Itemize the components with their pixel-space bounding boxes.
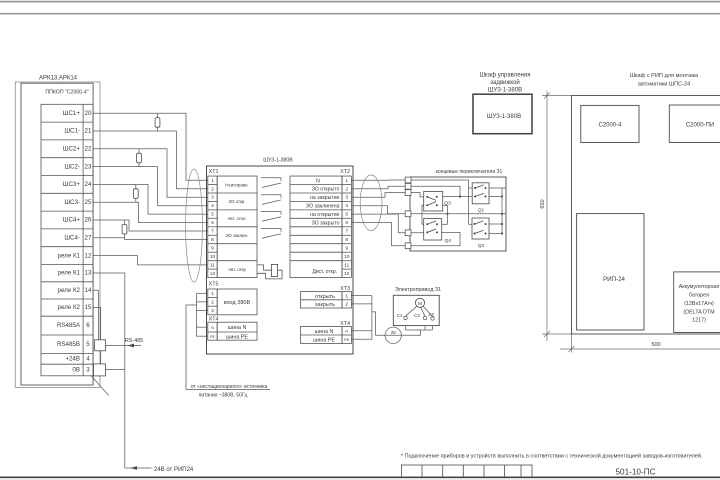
resistor R1 (ШС1 EOL) <box>155 113 160 131</box>
wire ШС2- pin23 to ХТ1.4 <box>93 167 208 206</box>
pin numbers ХТ1 <box>210 178 216 277</box>
svg-text:ЗО заклин.: ЗО заклин. <box>226 233 248 238</box>
svg-text:ЗО открыто: ЗО открыто <box>312 187 340 193</box>
terminal strip ХТ4 left <box>208 322 257 340</box>
svg-text:2: 2 <box>211 300 214 306</box>
svg-text:ШС2-: ШС2- <box>64 163 80 170</box>
svg-text:на открытие: на открытие <box>310 212 339 218</box>
svg-text:от «нестационарного» источника: от «нестационарного» источника <box>191 384 268 390</box>
junction dots <box>446 195 503 234</box>
svg-text:батарея: батарея <box>689 292 709 298</box>
resistor R3 (ШС3 EOL) <box>133 184 138 202</box>
svg-text:10: 10 <box>210 254 216 260</box>
wire ХТ2.3 to switch terminal 3 <box>351 193 405 198</box>
svg-text:(DELTA DTM: (DELTA DTM <box>683 310 715 316</box>
svg-text:9: 9 <box>345 246 348 252</box>
wire ШС4- pin27 to ХТ1.8 <box>93 238 208 240</box>
svg-text:С2000-ПИ: С2000-ПИ <box>686 122 714 128</box>
cabinet ШУЗ-1-380В main box <box>207 166 354 354</box>
svg-text:Q2: Q2 <box>478 243 485 249</box>
terminal strip ХТ3 <box>301 292 352 309</box>
wire реле К1 pin12 to ХТ1.11 <box>93 256 208 265</box>
svg-text:25: 25 <box>85 199 92 206</box>
svg-text:7: 7 <box>345 229 348 235</box>
drive terminals С1 С2 РЕ <box>404 316 434 320</box>
switch Q1 <box>472 183 489 204</box>
device block АРК13,АРК14 outer (second unit) box <box>15 82 100 388</box>
switch terminals column <box>405 177 411 249</box>
dimension 650 <box>542 91 572 341</box>
svg-text:3: 3 <box>86 367 90 374</box>
svg-text:Аккумуляторная: Аккумуляторная <box>679 284 720 290</box>
device box С2000-4 <box>581 105 639 142</box>
svg-text:шина PE: шина PE <box>313 338 335 344</box>
svg-text:7: 7 <box>211 229 214 235</box>
svg-text:27: 27 <box>85 235 92 242</box>
svg-text:вход 380В: вход 380В <box>224 300 251 306</box>
svg-text:С2000-4: С2000-4 <box>598 122 622 128</box>
internal wiring of limit switch box <box>411 180 506 246</box>
svg-text:N: N <box>316 178 320 184</box>
svg-text:Шкаф с РИП для монтажа: Шкаф с РИП для монтажа <box>630 73 699 79</box>
electric drive box <box>393 295 439 325</box>
terminal strip ХТ4 right <box>301 327 352 344</box>
svg-text:ЗО закрыто: ЗО закрыто <box>312 220 340 226</box>
wire cable diagonal at block bottom <box>91 376 109 396</box>
page area below frame <box>0 478 720 480</box>
cable ellipse right <box>360 175 382 231</box>
svg-text:RS485A: RS485A <box>57 322 81 329</box>
svg-text:3: 3 <box>211 308 214 314</box>
wire ШС1+ pin20 to ХТ1.1 <box>93 113 208 180</box>
svg-text:1: 1 <box>211 178 214 184</box>
wire реле К2 pin14 down <box>93 290 98 340</box>
svg-text:2: 2 <box>345 186 348 192</box>
pin numbers ХТ2 <box>344 178 350 277</box>
svg-text:Q4: Q4 <box>445 238 452 244</box>
motor leads <box>406 306 433 316</box>
svg-text:8: 8 <box>345 237 348 243</box>
svg-text:М: М <box>418 301 422 306</box>
wire ХТ2.2 to switch terminal 2 <box>351 186 405 188</box>
RS-485 output terminal box <box>95 340 106 351</box>
page top border line 1 <box>0 1 720 3</box>
device box РИП-24 <box>577 214 644 330</box>
wire реле К2 pin15 down <box>93 308 101 364</box>
svg-text:1: 1 <box>345 293 348 299</box>
ХТ2 function label cells <box>290 176 342 277</box>
svg-text:6: 6 <box>345 220 348 226</box>
terminal table of С2000-4 <box>41 104 93 376</box>
svg-text:12: 12 <box>210 271 216 277</box>
svg-text:ШУЗ-1-380В: ШУЗ-1-380В <box>488 87 522 93</box>
svg-text:500: 500 <box>651 342 660 348</box>
wire ХТ2.6 to switch terminal 6 <box>351 223 405 246</box>
svg-text:PE: PE <box>344 337 350 342</box>
svg-text:ШС3+: ШС3+ <box>63 181 81 188</box>
svg-text:автоматики ШПС-24: автоматики ШПС-24 <box>638 82 691 88</box>
svg-text:ШС2+: ШС2+ <box>63 146 81 153</box>
svg-text:ШУЗ-1-380В: ШУЗ-1-380В <box>263 158 293 164</box>
svg-text:ШС3-: ШС3- <box>64 199 80 206</box>
switch Q4 <box>424 219 442 240</box>
ХТ1 function labels <box>225 182 249 271</box>
svg-text:20: 20 <box>85 110 92 117</box>
cable ellipse left <box>186 169 203 282</box>
svg-text:6: 6 <box>86 322 90 329</box>
svg-text:С1: С1 <box>397 313 403 318</box>
cabinet box with РИП <box>572 96 720 335</box>
cabinet box ШУЗ-1-380В top <box>473 94 532 134</box>
svg-text:питания ~380В, 50Гц: питания ~380В, 50Гц <box>199 393 248 399</box>
wire ШС2+ pin22 to ХТ1.3 <box>93 149 208 197</box>
svg-text:9: 9 <box>211 246 214 252</box>
wire ШС4+ pin26 to ХТ1.7 <box>93 220 208 231</box>
wire реле К1 pin13 down to 24В feed <box>93 273 125 468</box>
svg-text:задвижкой: задвижкой <box>490 79 520 86</box>
svg-text:12: 12 <box>85 252 92 259</box>
wires ХТ5 to 380В source <box>197 293 208 336</box>
wire ХТ2.1 N to switch terminal 1 <box>351 179 405 181</box>
svg-text:С2: С2 <box>414 313 420 318</box>
svg-text:10: 10 <box>344 254 350 260</box>
svg-text:22: 22 <box>85 146 92 153</box>
resistor R4 (ШС4 EOL) <box>122 220 127 238</box>
relay contact symbol pair ХТ1 1-2 <box>261 178 281 188</box>
svg-text:2: 2 <box>211 186 214 192</box>
svg-text:ШС4-: ШС4- <box>64 235 80 242</box>
svg-text:5: 5 <box>345 212 348 218</box>
svg-text:ХТ4: ХТ4 <box>209 316 219 322</box>
svg-text:РЕ: РЕ <box>428 312 434 317</box>
svg-text:24: 24 <box>85 181 92 188</box>
svg-text:4: 4 <box>345 203 348 209</box>
svg-text:5: 5 <box>211 212 214 218</box>
terminal row labels С2000-4 <box>57 110 92 374</box>
svg-text:ХТ4: ХТ4 <box>340 321 350 327</box>
device box С2000-ПИ <box>669 105 720 143</box>
svg-text:501-10-ПС: 501-10-ПС <box>615 468 655 477</box>
24В power terminal box <box>94 364 106 376</box>
svg-text:PE: PE <box>210 334 216 339</box>
wire ШС1- pin21 to ХТ1.2 <box>93 131 208 189</box>
dimension 500 <box>560 334 720 353</box>
svg-text:ШС4+: ШС4+ <box>63 217 81 224</box>
svg-text:реле К1: реле К1 <box>58 270 81 277</box>
device box Аккумуляторная батарея <box>674 272 720 333</box>
wire ХТ2.4 to switch terminal 4 <box>351 206 405 214</box>
svg-text:АРК13,АРК14: АРК13,АРК14 <box>39 76 78 82</box>
svg-text:* Подключение приборов и устро: * Подключение приборов и устройств выпол… <box>401 453 703 460</box>
wire RS-485 with arrow <box>106 345 142 347</box>
terminal strip ХТ5 <box>208 289 257 315</box>
svg-text:ШС1+: ШС1+ <box>63 110 81 117</box>
svg-text:ЗО заклинена: ЗО заклинена <box>306 203 340 209</box>
switch Q2 <box>472 218 489 239</box>
wire ШС3+ pin24 to ХТ1.5 <box>93 184 208 214</box>
svg-text:24В от РИП24: 24В от РИП24 <box>154 467 194 473</box>
svg-text:1: 1 <box>345 178 348 184</box>
svg-text:шина N: шина N <box>228 325 247 331</box>
svg-text:+24В: +24В <box>65 356 80 363</box>
svg-text:14: 14 <box>85 287 92 294</box>
svg-text:15: 15 <box>85 304 92 311</box>
svg-text:закрыть: закрыть <box>315 302 335 308</box>
svg-text:ЗО откр.: ЗО откр. <box>228 199 245 204</box>
terminal strip ХТ1 pins 1-12 <box>208 176 217 277</box>
svg-text:ШС1-: ШС1- <box>64 128 80 135</box>
svg-text:ХТ5: ХТ5 <box>209 281 219 287</box>
svg-text:РИП-24: РИП-24 <box>603 276 626 283</box>
svg-text:ШУЗ-1-380В: ШУЗ-1-380В <box>487 114 521 120</box>
svg-text:26: 26 <box>85 217 92 224</box>
svg-text:реле К1: реле К1 <box>58 252 81 259</box>
wire 24В box to riser <box>106 369 125 371</box>
svg-text:3: 3 <box>211 195 214 201</box>
svg-text:концевые переключатели З1: концевые переключатели З1 <box>436 169 503 175</box>
title block cells <box>402 465 533 477</box>
svg-text:реле К2: реле К2 <box>58 304 81 311</box>
svg-text:Q1: Q1 <box>478 207 485 213</box>
svg-text:RS-485: RS-485 <box>125 338 143 344</box>
device block ППКОП С2000-4 main box <box>21 83 93 385</box>
ХТ1 function label cells <box>217 176 257 277</box>
resistor R2 (ШС2 EOL) <box>137 149 142 167</box>
wires ХТ3/ХТ4 to electric drive <box>351 296 432 340</box>
svg-text:шина N: шина N <box>315 329 334 335</box>
svg-text:650: 650 <box>540 199 546 208</box>
cable marker circle 28 <box>385 327 401 343</box>
svg-text:13: 13 <box>85 270 92 277</box>
svg-text:Неисправн.: Неисправн. <box>225 182 249 187</box>
svg-text:3: 3 <box>345 195 348 201</box>
motor М <box>415 298 424 307</box>
page bottom frame line <box>0 477 720 479</box>
svg-text:Q3: Q3 <box>444 201 451 207</box>
svg-text:N: N <box>211 325 214 330</box>
svg-text:4: 4 <box>86 356 90 363</box>
switch Q3 <box>424 192 443 212</box>
svg-text:28: 28 <box>391 330 397 335</box>
svg-text:N: N <box>345 329 348 334</box>
svg-text:Шкаф управления: Шкаф управления <box>480 73 531 79</box>
wire ШС3- pin25 to ХТ1.6 <box>93 202 208 222</box>
svg-text:шина PE: шина PE <box>226 334 248 340</box>
svg-text:11: 11 <box>344 262 349 268</box>
svg-text:RS485B: RS485B <box>57 341 80 348</box>
svg-text:реле К2: реле К2 <box>58 287 81 294</box>
relay contact symbol pair ХТ1 7-8 <box>261 229 281 239</box>
svg-text:ППКОП "С2000-4": ППКОП "С2000-4" <box>45 90 88 96</box>
page top border line 2 <box>0 13 720 15</box>
wire ХТ2.5 to switch terminal 5 <box>351 214 405 233</box>
svg-text:11: 11 <box>210 262 215 268</box>
svg-text:на закрытие: на закрытие <box>310 195 340 201</box>
label Шкаф управления задвижкой <box>480 73 531 94</box>
svg-text:0В: 0В <box>72 367 80 374</box>
svg-text:23: 23 <box>85 163 92 170</box>
svg-text:Дист. откр.: Дист. откр. <box>312 269 337 275</box>
solenoid contact symbol at ХТ1 11-12 <box>257 264 282 279</box>
svg-text:8: 8 <box>211 237 214 243</box>
terminal strip ХТ2 pins 1-12 <box>342 176 351 277</box>
svg-text:ХТ2: ХТ2 <box>340 169 350 175</box>
svg-text:2: 2 <box>345 302 348 308</box>
svg-text:6: 6 <box>211 220 214 226</box>
ХТ2 function labels <box>306 178 340 275</box>
relay contact symbol pair ХТ1 5-6 <box>261 212 281 222</box>
svg-text:(12Вх17А/ч): (12Вх17А/ч) <box>684 301 714 307</box>
svg-text:12: 12 <box>344 271 350 277</box>
svg-text:Авт. откр: Авт. откр <box>228 267 246 272</box>
svg-text:4: 4 <box>211 203 214 209</box>
svg-text:Электропривод З1: Электропривод З1 <box>395 287 441 293</box>
relay contact symbol pair ХТ1 3-4 <box>261 195 281 205</box>
svg-text:1217): 1217) <box>692 317 706 323</box>
svg-text:1: 1 <box>211 291 214 297</box>
wire 24В от РИП24 arrow <box>125 467 152 469</box>
limit switches enclosure box <box>410 177 506 251</box>
svg-text:открыть: открыть <box>315 294 335 300</box>
svg-text:Авт. откл.: Авт. откл. <box>227 216 246 221</box>
svg-text:ХТ1: ХТ1 <box>209 169 219 175</box>
wires ХТ4 left to PE/N <box>186 305 270 390</box>
label Шкаф с РИП title <box>630 73 699 88</box>
svg-text:5: 5 <box>86 341 90 348</box>
svg-text:21: 21 <box>85 128 92 135</box>
